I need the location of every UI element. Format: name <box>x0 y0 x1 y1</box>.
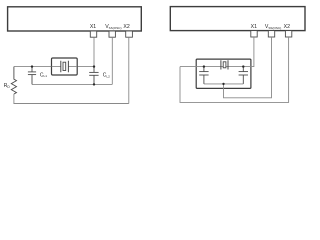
svg-text:X2: X2 <box>284 24 290 30</box>
svg-text:X2: X2 <box>123 24 129 30</box>
resonator inner rect <box>223 62 226 68</box>
pin X2 (right) <box>285 31 291 37</box>
wire inner rail (cap bottoms) <box>204 83 243 85</box>
node A dot (X1/crystal/CL2) <box>93 65 95 67</box>
node CL1 top dot <box>31 65 33 67</box>
capacitor CL2 <box>89 67 98 85</box>
node dot cap C2 top <box>242 65 244 67</box>
left MCU box <box>8 7 142 31</box>
wire top rail (Rd top - CL1 - crystal - node A) <box>14 66 94 68</box>
resistor RD <box>11 67 16 94</box>
node dot cap C1 top <box>203 65 205 67</box>
pin X2 (left) <box>126 31 133 37</box>
pin X1 (right) <box>251 31 257 37</box>
svg-text:CL2: CL2 <box>103 73 110 79</box>
node dot center tap <box>222 83 224 85</box>
pin VSS(OSC) (left) <box>109 31 115 37</box>
node CL2 bottom dot <box>93 83 95 85</box>
crystal resonator body <box>52 58 78 75</box>
svg-text:X1: X1 <box>251 24 257 30</box>
pin VSS(OSC) (right) <box>268 31 274 37</box>
wire rail A (CL1 bottom - CL2 bottom - VSS) <box>32 83 112 85</box>
wire X2 down, along bottom, up left side <box>180 37 289 102</box>
wire rail B (Rd bottom - X2) <box>14 94 129 104</box>
wire X1 pin down to node A <box>93 37 95 66</box>
capacitor C2 (in module) <box>239 67 248 84</box>
wire VSS pin down to rail A <box>111 37 113 84</box>
wire VSS pin down, left, up to center tap <box>224 37 272 98</box>
resonator plates <box>221 60 228 69</box>
svg-text:RD: RD <box>4 83 11 89</box>
wire X2 pin down to rail B <box>128 37 130 103</box>
wire X1 down and lead across module <box>180 37 254 67</box>
capacitor CL1 <box>28 67 36 85</box>
crystal inner rect <box>63 62 66 70</box>
crystal leads inside body <box>52 66 78 68</box>
crystal plates <box>61 61 69 72</box>
svg-text:CL1: CL1 <box>40 72 47 78</box>
capacitor C1 (in module) <box>199 67 208 84</box>
svg-text:X1: X1 <box>90 24 96 30</box>
resonator module box <box>196 59 251 88</box>
pin X1 (left) <box>90 31 96 37</box>
right MCU box <box>170 7 305 31</box>
